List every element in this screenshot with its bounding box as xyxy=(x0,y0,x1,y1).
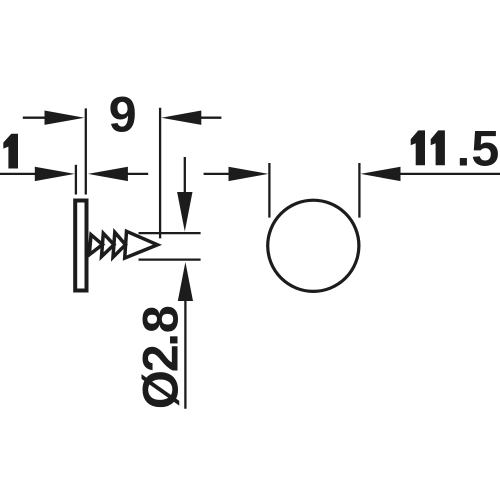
svg-text:9: 9 xyxy=(109,86,137,143)
svg-text:Ø: Ø xyxy=(132,370,189,409)
svg-text:8: 8 xyxy=(132,305,189,333)
svg-text:5: 5 xyxy=(471,119,499,176)
svg-text:.: . xyxy=(456,119,470,176)
svg-text:2: 2 xyxy=(132,344,189,372)
